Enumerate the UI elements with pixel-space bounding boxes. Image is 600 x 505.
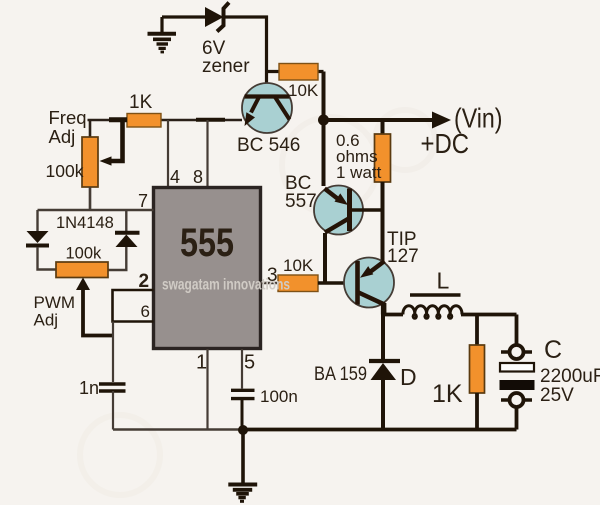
svg-text:swagatam innovations: swagatam innovations	[162, 277, 290, 294]
svg-text:100k: 100k	[66, 245, 103, 263]
wire: pin 1 down to rail	[206, 349, 208, 430]
wire: 0.6R bottom to TIP127 emitter	[381, 210, 385, 261]
wire: pin 8	[206, 120, 208, 187]
transistor Q2 BC557	[314, 186, 363, 235]
svg-text:BA 159: BA 159	[314, 364, 367, 385]
inductor L core bar	[410, 293, 461, 297]
wire: Vin rail with arrow	[324, 112, 452, 129]
svg-text:PWM: PWM	[34, 293, 76, 312]
ground G2	[228, 430, 257, 501]
wire: pin 3 to 10K	[261, 282, 279, 284]
transistor Q1 BC546	[242, 83, 292, 133]
diode D1 1N4148 left	[26, 210, 56, 270]
wire: BC557 base to 0.6R bottom node	[352, 208, 383, 212]
capacitor 1n	[99, 384, 126, 430]
svg-text:Freq: Freq	[49, 107, 87, 128]
svg-text:2: 2	[139, 271, 150, 292]
resistor 0.6 ohms 1 watt	[375, 120, 391, 210]
svg-text:2200uF: 2200uF	[540, 366, 600, 387]
svg-text:1: 1	[196, 352, 207, 374]
svg-text:1K: 1K	[129, 92, 153, 113]
svg-text:10K: 10K	[283, 256, 314, 275]
freq pot wiper	[100, 118, 128, 166]
svg-text:5: 5	[244, 352, 255, 374]
svg-text:4: 4	[170, 167, 180, 187]
resistor 1K (freq)	[88, 114, 162, 128]
ground G1 (zener anode)	[148, 17, 177, 52]
svg-text:8: 8	[193, 167, 203, 187]
inductor L	[403, 306, 462, 318]
svg-text:Adj: Adj	[49, 126, 76, 147]
svg-text:555: 555	[180, 221, 234, 265]
potentiometer PWM Adj 100k	[56, 262, 108, 278]
resistor 10K (base pull-up)	[267, 64, 324, 81]
capacitor C 2200uF electrolytic	[500, 315, 535, 430]
svg-text:C: C	[544, 336, 562, 364]
wire: pin 5 down	[241, 349, 243, 389]
wire: 10K to TIP base	[318, 281, 357, 285]
PWM wiper arrow	[76, 278, 114, 336]
svg-text:BC 546: BC 546	[237, 135, 300, 156]
svg-text:Adj: Adj	[34, 311, 59, 330]
wire: wiper node down to bottom rail	[112, 322, 114, 383]
svg-text:1 watt: 1 watt	[336, 163, 382, 182]
junction dot ground rail	[238, 425, 248, 435]
svg-text:1n: 1n	[79, 378, 99, 398]
svg-text:+DC: +DC	[421, 128, 470, 159]
wire: bottom ground rail	[113, 428, 243, 430]
diode D2 1N4148 right	[108, 210, 140, 270]
wire: zener top net	[162, 17, 267, 83]
svg-text:1K: 1K	[432, 380, 463, 408]
svg-text:7: 7	[138, 191, 148, 211]
wire: pin 4	[167, 120, 169, 187]
wire: inductor to output node	[461, 313, 517, 317]
junction dot Vin node	[318, 115, 329, 126]
svg-text:D: D	[400, 364, 417, 390]
transistor Q3 TIP 127	[344, 258, 394, 308]
wire: BC557 collector down to TIP base node	[323, 233, 327, 283]
svg-text:L: L	[437, 268, 450, 294]
svg-text:25V: 25V	[540, 385, 574, 406]
svg-text:10K: 10K	[288, 81, 319, 100]
wire: TIP collector to switch node	[383, 303, 403, 315]
wire: pin 2 bracket	[113, 290, 154, 322]
wire: pin 7 rail to diode network	[38, 187, 154, 210]
zener diode 6V	[205, 3, 229, 32]
resistor 10K (base drive)	[278, 275, 318, 292]
wire: 10K right end down to Vin node	[322, 72, 326, 117]
capacitor 100n	[231, 390, 255, 429]
IC U1 555	[154, 188, 261, 349]
svg-text:zener: zener	[202, 56, 250, 77]
wire: Vin node down to BC557 emitter	[322, 120, 326, 186]
resistor 1K (load)	[470, 315, 485, 430]
diode D BA159	[369, 315, 400, 430]
wire: Vcc line from BC546 emitter to 1K / 555 pins 4,8	[161, 119, 243, 122]
svg-text:1N4148: 1N4148	[56, 214, 114, 232]
potentiometer Freq Adj 100k	[82, 120, 98, 210]
svg-text:100n: 100n	[260, 387, 298, 406]
svg-text:6: 6	[141, 302, 150, 321]
svg-text:100k: 100k	[46, 161, 84, 181]
svg-text:557: 557	[285, 191, 317, 212]
svg-text:127: 127	[387, 246, 419, 267]
